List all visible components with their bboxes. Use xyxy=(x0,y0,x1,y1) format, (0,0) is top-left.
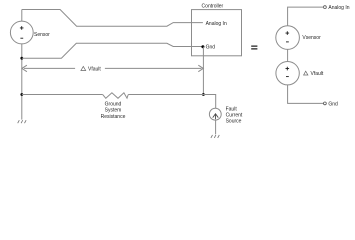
dimension line Delta Vfault xyxy=(24,67,202,69)
svg-text:Gnd: Gnd xyxy=(206,45,216,51)
wire top conductor (sensor to controller Analog In) xyxy=(22,10,203,27)
svg-text:Current: Current xyxy=(226,113,243,119)
wire ground rail right segment xyxy=(128,95,216,109)
label Delta Vfault (source) xyxy=(304,71,308,75)
dimension arrowhead right xyxy=(198,65,203,72)
wire bottom conductor (junction to controller Gnd) xyxy=(22,43,203,58)
svg-text:Fault: Fault xyxy=(226,106,238,112)
svg-text:Sensor: Sensor xyxy=(34,32,50,38)
wire Vfault to Gnd terminal xyxy=(288,85,324,104)
wire controller gnd drop xyxy=(202,47,204,95)
current source Fault Current Source xyxy=(209,108,221,120)
wire sensor top lead xyxy=(21,10,23,22)
wire terminal to Vsensor xyxy=(288,7,324,26)
svg-text:System: System xyxy=(105,108,122,114)
voltage source Vsensor xyxy=(276,26,300,50)
wire Vsensor to Vfault xyxy=(287,49,289,61)
resistor Ground System Resistance xyxy=(103,93,129,99)
ground earth symbol at sensor xyxy=(18,120,26,123)
dimension arrowhead left xyxy=(22,65,27,72)
svg-text:Source: Source xyxy=(226,119,242,125)
wire current source to earth xyxy=(215,120,217,134)
node controller Gnd pin xyxy=(201,45,204,48)
svg-text:Vfault: Vfault xyxy=(311,71,324,77)
svg-text:Gnd: Gnd xyxy=(328,101,338,107)
terminal Analog In (equivalent circuit) xyxy=(324,6,327,9)
svg-text:Controller: Controller xyxy=(202,4,224,10)
svg-text:Resistance: Resistance xyxy=(101,114,126,120)
node junction gnd drop to ground rail xyxy=(202,93,205,96)
terminal Gnd (equivalent circuit) xyxy=(324,102,327,105)
label Delta Vfault (dimension) xyxy=(81,66,86,70)
svg-text:Analog In: Analog In xyxy=(206,21,227,27)
controller box xyxy=(192,10,242,56)
wire sensor bottom lead down to earth xyxy=(21,44,23,120)
voltage source Vfault xyxy=(276,61,299,84)
svg-text:Vfault: Vfault xyxy=(88,66,101,72)
equals sign xyxy=(251,46,257,49)
voltage source Sensor xyxy=(10,21,33,44)
svg-text:Ground: Ground xyxy=(105,102,122,108)
node junction sensor lead to ground rail xyxy=(20,93,23,96)
node junction bottom conductor tap xyxy=(20,57,23,60)
wire ground rail left segment xyxy=(22,94,103,96)
ground earth symbol at fault source xyxy=(211,135,219,138)
svg-text:Analog In: Analog In xyxy=(328,5,349,11)
svg-text:Vsensor: Vsensor xyxy=(302,35,321,41)
